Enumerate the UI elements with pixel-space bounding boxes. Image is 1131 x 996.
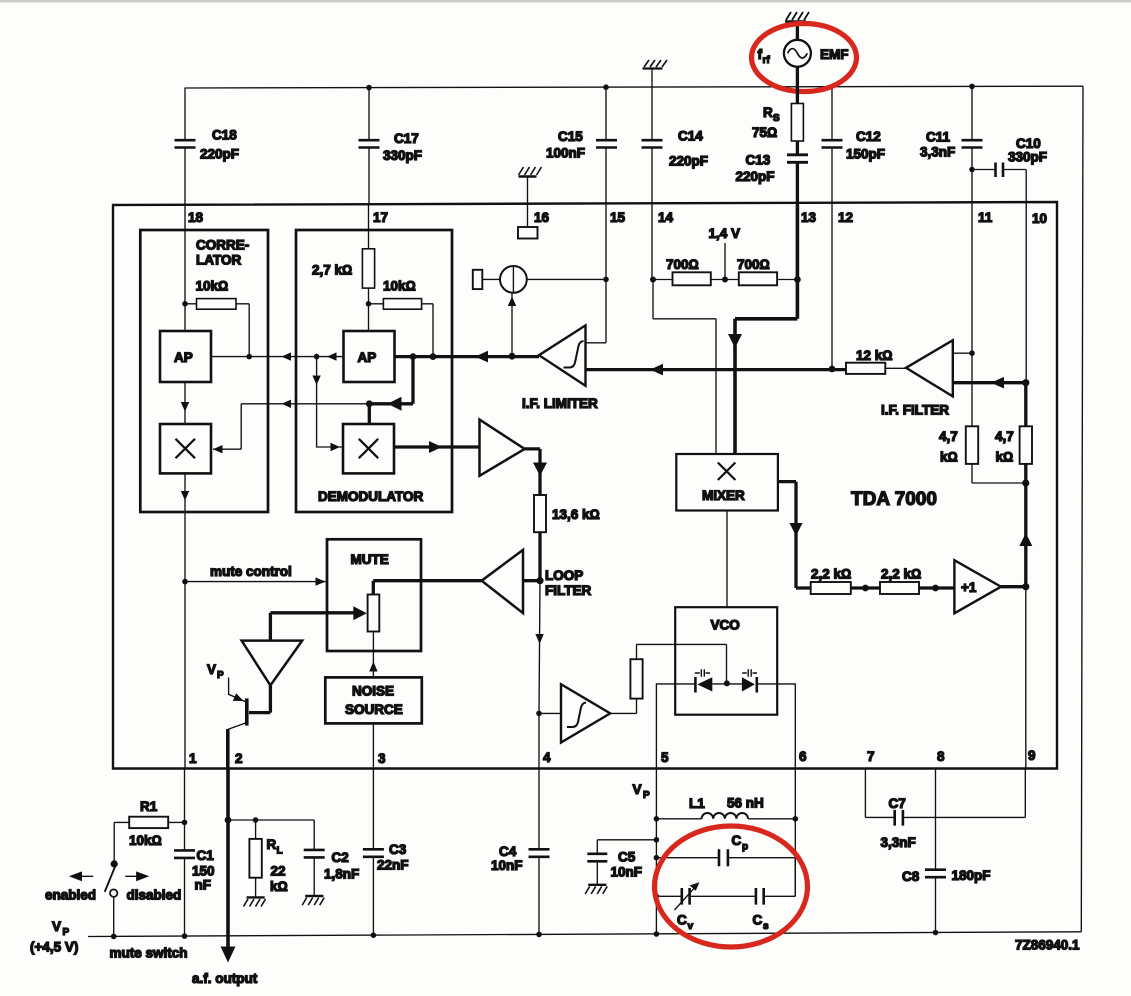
resistor RS 75 ohm bbox=[752, 104, 803, 142]
node: switch on bus bbox=[111, 934, 117, 940]
amplifier I.F. LIMITER (triangle with limit curve) bbox=[522, 325, 598, 411]
svg-text:16: 16 bbox=[534, 210, 550, 225]
capacitor C15 100nF bbox=[546, 84, 617, 205]
mute switch bbox=[45, 860, 188, 960]
svg-text:150: 150 bbox=[192, 864, 215, 879]
thick wire: mixer output right-down to 2,2k row (arrow down) bbox=[778, 482, 811, 588]
svg-text:18: 18 bbox=[188, 210, 204, 225]
svg-text:enabled: enabled bbox=[45, 888, 96, 903]
svg-text:56 nH: 56 nH bbox=[727, 796, 764, 811]
svg-text:330pF: 330pF bbox=[1008, 150, 1047, 165]
svg-text:10kΩ: 10kΩ bbox=[129, 833, 162, 848]
thick wire: limiter to demod (tip side handled) input thick line from IF strip bbox=[586, 368, 847, 371]
svg-text:V: V bbox=[52, 919, 61, 934]
svg-text:C12: C12 bbox=[856, 129, 881, 144]
svg-text:10: 10 bbox=[1032, 211, 1047, 226]
node: R1 to pin1 line bbox=[182, 820, 188, 826]
svg-text:NOISE: NOISE bbox=[352, 684, 394, 699]
wire: left 700 return path down and right to mixer bbox=[653, 280, 716, 455]
amplifier LOOP FILTER bbox=[482, 550, 592, 613]
node: L1 left / C5 / Cp / Cv taps, bus bbox=[654, 816, 660, 822]
svg-text:C: C bbox=[732, 833, 742, 848]
svg-text:DEMODULATOR: DEMODULATOR bbox=[318, 489, 423, 504]
thick wire: demod X output to af preamp bbox=[394, 441, 480, 453]
capacitor Cs bbox=[753, 858, 796, 932]
node: pin 7 tap bbox=[862, 585, 869, 592]
wire: pot bottom to noise source (arrow up) bbox=[369, 632, 377, 678]
resistor 10k (demodulator) bbox=[369, 279, 434, 357]
svg-text:4,7: 4,7 bbox=[995, 429, 1014, 444]
wire: EMF to RS (thick, crosses top bus) bbox=[796, 67, 799, 104]
svg-text:v: v bbox=[688, 921, 694, 932]
svg-text:10kΩ: 10kΩ bbox=[196, 279, 229, 294]
inductor L1 56nH bbox=[656, 796, 795, 819]
capacitor C17 330pF bbox=[359, 85, 423, 205]
svg-text:P: P bbox=[63, 927, 70, 938]
svg-text:V: V bbox=[207, 662, 216, 677]
svg-text:700Ω: 700Ω bbox=[666, 257, 699, 272]
wire: limiter output node up to detector (arrow up) bbox=[508, 293, 516, 356]
detector rect (left of level circle) bbox=[473, 270, 483, 289]
generator EMF f_rf bbox=[758, 22, 849, 67]
svg-text:220pF: 220pF bbox=[200, 147, 239, 162]
thick wire: amp apex to transistor base bbox=[249, 685, 270, 712]
node: loop filter input bbox=[536, 577, 543, 584]
svg-text:rf: rf bbox=[763, 55, 771, 66]
svg-text:9: 9 bbox=[1028, 748, 1036, 763]
svg-text:a.f. output: a.f. output bbox=[192, 971, 258, 986]
capacitor Cp bbox=[656, 833, 795, 866]
node: pin 8 tap bbox=[932, 585, 939, 592]
svg-text:10nF: 10nF bbox=[611, 865, 643, 880]
capacitor C3 22nF (pin 3) bbox=[363, 769, 409, 939]
IC TDA7000 outline box bbox=[113, 202, 1057, 769]
resistor R1 10k bbox=[114, 799, 184, 864]
svg-text:kΩ: kΩ bbox=[270, 879, 288, 894]
amplifier +1 bbox=[954, 560, 1001, 613]
wire: top supply bus bbox=[185, 86, 1084, 88]
wire: correlator X output down to pin 1 with arrow bbox=[181, 473, 189, 768]
svg-text:3: 3 bbox=[378, 751, 386, 766]
svg-text:MIXER: MIXER bbox=[702, 488, 745, 503]
svg-text:MUTE: MUTE bbox=[351, 552, 389, 567]
svg-text:LATOR: LATOR bbox=[196, 253, 241, 268]
capacitor C1 150nF (on pin1 line) bbox=[174, 769, 215, 937]
svg-text:p: p bbox=[742, 842, 748, 853]
svg-text:17: 17 bbox=[373, 210, 388, 225]
ground (above C14) bbox=[643, 60, 668, 69]
svg-text:1,8nF: 1,8nF bbox=[324, 867, 359, 882]
svg-text:C: C bbox=[677, 913, 687, 928]
svg-text:2,2 kΩ: 2,2 kΩ bbox=[881, 567, 921, 582]
wire: pin 15 line down to limiter base bbox=[586, 205, 607, 343]
svg-text:FILTER: FILTER bbox=[545, 583, 591, 598]
svg-text:100nF: 100nF bbox=[546, 146, 585, 161]
svg-text:SOURCE: SOURCE bbox=[345, 702, 403, 717]
thick wire: pin 2 af line to bottom arrow bbox=[192, 769, 258, 987]
potentiometer in mute box bbox=[368, 595, 380, 632]
svg-text:(+4,5 V): (+4,5 V) bbox=[30, 940, 78, 955]
wire: pin 9 line down from +1 node bbox=[1025, 587, 1027, 769]
svg-text:10nF: 10nF bbox=[491, 858, 523, 873]
svg-text:220pF: 220pF bbox=[669, 154, 708, 169]
svg-text:R: R bbox=[267, 837, 277, 852]
amplifier I.F. FILTER bbox=[881, 340, 972, 417]
resistor 10k (correlator) bbox=[185, 279, 249, 357]
svg-text:kΩ: kΩ bbox=[996, 450, 1014, 465]
svg-text:S: S bbox=[773, 113, 780, 124]
node: 10k tap on pin17 line bbox=[366, 301, 372, 307]
node: filter upper input bbox=[969, 350, 975, 356]
svg-text:CORRE-: CORRE- bbox=[196, 238, 249, 253]
amplifier (VCO control, with limit curve) bbox=[539, 684, 610, 742]
resistor 13,6k bbox=[534, 495, 600, 581]
svg-text:700Ω: 700Ω bbox=[737, 257, 770, 272]
node: 10k tap on pin18 line bbox=[182, 301, 188, 307]
svg-text:kΩ: kΩ bbox=[940, 450, 958, 465]
wire: pin 5 line down from varicap bbox=[655, 683, 657, 768]
capacitor C13 220pF (on thick line) bbox=[736, 141, 809, 205]
svg-text:I.F. FILTER: I.F. FILTER bbox=[881, 403, 949, 418]
ground (C2) bbox=[302, 896, 324, 905]
resistor 2,7k (demodulator) bbox=[312, 249, 375, 331]
NOISE SOURCE block box bbox=[325, 677, 422, 723]
VCO block box bbox=[675, 607, 777, 715]
svg-text:6: 6 bbox=[799, 749, 807, 764]
resistor 2,2k (second) bbox=[880, 567, 954, 595]
svg-text:5: 5 bbox=[661, 750, 669, 765]
red marker ellipse around EMF bbox=[752, 24, 857, 92]
capacitor C10 330pF (horizontal) bbox=[972, 136, 1047, 177]
svg-text:TDA 7000: TDA 7000 bbox=[851, 489, 937, 510]
svg-text:10kΩ: 10kΩ bbox=[383, 279, 416, 294]
svg-text:75Ω: 75Ω bbox=[752, 125, 777, 140]
svg-text:2,7 kΩ: 2,7 kΩ bbox=[312, 263, 352, 278]
ground (above EMF source) bbox=[785, 12, 809, 22]
svg-text:C3: C3 bbox=[389, 842, 407, 857]
capacitor C11 3,3nF bbox=[920, 84, 983, 173]
svg-text:2: 2 bbox=[235, 751, 243, 766]
svg-text:C1: C1 bbox=[197, 848, 215, 863]
svg-text:13,6 kΩ: 13,6 kΩ bbox=[552, 507, 600, 522]
svg-text:R: R bbox=[763, 105, 773, 120]
resistor RL 22k bbox=[249, 820, 287, 897]
svg-text:220pF: 220pF bbox=[736, 169, 775, 184]
svg-text:+1: +1 bbox=[961, 580, 977, 595]
node: pin14 / 700 row bbox=[650, 277, 656, 283]
capacitor C18 220pF bbox=[175, 88, 240, 205]
svg-text:nF: nF bbox=[195, 878, 212, 893]
svg-text:12: 12 bbox=[838, 210, 853, 225]
varicap line across VCO bbox=[656, 683, 795, 685]
MUTE block box bbox=[327, 539, 421, 651]
resistor 4,7k (left, on pin11 line) bbox=[939, 353, 1026, 483]
svg-text:4: 4 bbox=[543, 750, 551, 765]
svg-text:mute switch: mute switch bbox=[110, 946, 188, 961]
thick wire: limiter output to demod AP input bbox=[395, 351, 540, 363]
node: varicap centre bbox=[724, 680, 730, 686]
DEMODULATOR block box bbox=[296, 230, 452, 512]
svg-text:AP: AP bbox=[358, 350, 377, 365]
capacitor C12 150pF bbox=[822, 87, 886, 205]
svg-text:C2: C2 bbox=[332, 850, 349, 865]
wire: pin 4 line bbox=[535, 638, 543, 769]
node: pin1 line on bus bbox=[182, 933, 188, 939]
wire: right outer vertical (top bus to bottom bus) bbox=[1081, 86, 1083, 932]
svg-text:L1: L1 bbox=[689, 796, 705, 811]
svg-text:C4: C4 bbox=[499, 844, 517, 859]
svg-text:7Z86940.1: 7Z86940.1 bbox=[1015, 938, 1080, 953]
wire: mute control from pin1 line (arrow right) bbox=[182, 564, 325, 586]
svg-text:22nF: 22nF bbox=[377, 858, 409, 873]
wire: demod AP output to correlator AP (arrows left) bbox=[211, 352, 344, 360]
svg-text:15: 15 bbox=[610, 210, 626, 225]
svg-text:8: 8 bbox=[937, 749, 945, 764]
resistor (VCO control) bbox=[610, 644, 726, 713]
wire: pin6 external line bbox=[794, 769, 796, 897]
svg-text:C11: C11 bbox=[926, 130, 951, 145]
label VP (pin 5 branch) bbox=[633, 782, 651, 801]
svg-text:C7: C7 bbox=[889, 796, 906, 811]
multiplier X (correlator) bbox=[160, 424, 211, 473]
CORRELATOR block box bbox=[140, 230, 268, 512]
wire: pin 17 line into demodulator bbox=[368, 205, 370, 249]
capacitor C4 10nF (pin 4) bbox=[491, 769, 550, 938]
ground (C5) bbox=[585, 885, 607, 894]
svg-text:EMF: EMF bbox=[820, 47, 849, 62]
pad: pin 16 termination rect bbox=[518, 227, 538, 239]
svg-text:LOOP: LOOP bbox=[545, 568, 583, 583]
resistor 12k on filter input bbox=[846, 348, 906, 374]
capacitor Cv (variable) bbox=[656, 882, 754, 932]
svg-text:R1: R1 bbox=[140, 799, 158, 814]
arrow left on IF line bbox=[650, 364, 663, 376]
svg-text:1,4 V: 1,4 V bbox=[709, 226, 741, 241]
wire: pin 14 line bbox=[651, 205, 653, 280]
thick wire: filter lower to pin10 node (arrow left) bbox=[953, 377, 1026, 389]
wire: mixer bottom to VCO top bbox=[726, 511, 728, 608]
svg-text:VCO: VCO bbox=[711, 618, 740, 633]
svg-text:AP: AP bbox=[174, 350, 193, 365]
wire: pin 18 line into correlator bbox=[184, 205, 186, 331]
svg-text:C: C bbox=[753, 913, 763, 928]
thick wire: pin13 RF down into mixer (big arrow down) bbox=[728, 205, 797, 454]
label 1,4 V with stub bbox=[709, 226, 741, 283]
thick wire: buffer out right and down to 13,6k (arrow down) bbox=[525, 449, 547, 495]
svg-text:1: 1 bbox=[189, 751, 197, 766]
wire: correlator AP down to multiplier with arrow bbox=[181, 382, 189, 424]
varicap diode right bbox=[742, 669, 757, 692]
MIXER block bbox=[676, 454, 778, 511]
scan edge artifact bbox=[0, 0, 1131, 3]
wire: af line tap to RL and C2 bbox=[225, 817, 315, 824]
svg-text:s: s bbox=[763, 921, 769, 932]
transistor Q1 (PNP af output) bbox=[207, 662, 247, 769]
svg-text:P: P bbox=[217, 670, 224, 681]
wire: ground to pin 16 pad bbox=[527, 177, 529, 228]
wire: pin 3 line from noise source bbox=[372, 723, 374, 768]
red marker ellipse around tank bbox=[655, 826, 808, 947]
svg-text:180pF: 180pF bbox=[952, 868, 991, 883]
capacitor C5 10nF bbox=[587, 840, 656, 885]
svg-text:C18: C18 bbox=[212, 128, 237, 143]
wire: branch down to demod X left input (arrow down mid, arrow right at end) bbox=[312, 357, 343, 452]
svg-text:L: L bbox=[277, 846, 283, 857]
wire: bottom supply bus bbox=[88, 932, 1081, 937]
svg-text:330pF: 330pF bbox=[383, 148, 422, 163]
wire: demod thick node to correlator X (thin part) bbox=[213, 400, 369, 454]
resistor 700 ohm (left) bbox=[653, 257, 725, 285]
op-amp block AP (correlator) bbox=[160, 331, 211, 382]
svg-text:C5: C5 bbox=[618, 850, 636, 865]
level detector circle bbox=[482, 266, 609, 293]
amplifier (demod output buffer) bbox=[480, 420, 525, 476]
svg-text:4,7: 4,7 bbox=[939, 429, 958, 444]
thick wire: AP node down-left into demod X top (big arrow left) bbox=[366, 357, 413, 424]
thick wire: +1 output to pin10 line (arrow up) bbox=[1001, 379, 1032, 590]
ground (RL) bbox=[244, 897, 266, 906]
wire: pin5 external line bbox=[655, 769, 657, 935]
svg-text:11: 11 bbox=[978, 210, 993, 225]
svg-text:P: P bbox=[643, 790, 650, 801]
capacitor C8 180pF (pin 8) bbox=[902, 769, 991, 936]
svg-text:V: V bbox=[633, 782, 642, 797]
thick wire: mute drive amp to pot (arrow right) bbox=[270, 606, 366, 620]
svg-text:C15: C15 bbox=[558, 129, 583, 144]
svg-text:7: 7 bbox=[867, 749, 875, 764]
wire: pin 10 line from C10 down into IC bbox=[1025, 170, 1027, 383]
amplifier (inverting, drives mute) bbox=[242, 613, 303, 686]
node: 700 row joins pin13 thick line bbox=[794, 276, 801, 283]
svg-text:I.F. LIMITER: I.F. LIMITER bbox=[522, 396, 598, 411]
thick wire: loop filter output into MUTE pot bbox=[373, 581, 481, 595]
svg-text:22: 22 bbox=[271, 864, 286, 879]
svg-text:C13: C13 bbox=[746, 153, 771, 168]
ground (pin 16 wire) bbox=[519, 167, 542, 177]
svg-text:13: 13 bbox=[801, 210, 817, 225]
node: pin 12 joins IF line bbox=[829, 366, 836, 373]
svg-text:3,3nF: 3,3nF bbox=[920, 145, 955, 160]
varicap diode left bbox=[695, 669, 713, 692]
svg-text:C14: C14 bbox=[678, 129, 703, 144]
multiplier X (demodulator) bbox=[343, 424, 394, 473]
svg-text:2,2 kΩ: 2,2 kΩ bbox=[811, 567, 851, 582]
svg-text:150pF: 150pF bbox=[846, 147, 885, 162]
capacitor C14 220pF bbox=[642, 69, 709, 206]
capacitor C7 3,3nF (pins 7-9) bbox=[865, 769, 1025, 851]
op-amp block AP (demodulator) bbox=[344, 331, 395, 382]
svg-text:mute control: mute control bbox=[210, 564, 292, 579]
wire: pin 12 line bbox=[831, 205, 833, 369]
capacitor C2 1,8nF bbox=[304, 820, 360, 896]
svg-text:disabled: disabled bbox=[127, 888, 182, 903]
wire: pin 6 line down from varicap bbox=[794, 683, 796, 768]
svg-text:12 kΩ: 12 kΩ bbox=[856, 348, 893, 363]
svg-text:C17: C17 bbox=[394, 131, 419, 146]
label VP supply bbox=[30, 919, 78, 955]
svg-text:C8: C8 bbox=[902, 869, 920, 884]
svg-text:14: 14 bbox=[658, 210, 674, 225]
wire: loop node down to pin4 node (arrow down) bbox=[535, 581, 543, 714]
resistor 700 ohm (right) bbox=[725, 257, 797, 285]
svg-text:3,3nF: 3,3nF bbox=[881, 835, 916, 850]
resistor 4,7k (right, on pin10 line) bbox=[995, 426, 1032, 464]
resistor 2,2k (first) bbox=[811, 567, 880, 595]
wire: pin 11 line from C11 to IF filter upper input bbox=[971, 170, 973, 354]
